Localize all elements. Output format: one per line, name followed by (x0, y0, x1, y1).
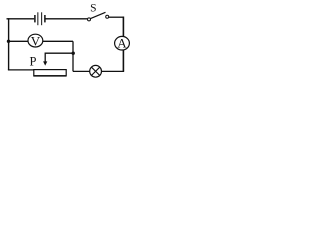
svg-text:P: P (30, 54, 37, 68)
svg-text:V: V (31, 34, 41, 49)
svg-text:S: S (90, 3, 96, 15)
svg-text:A: A (117, 35, 127, 50)
